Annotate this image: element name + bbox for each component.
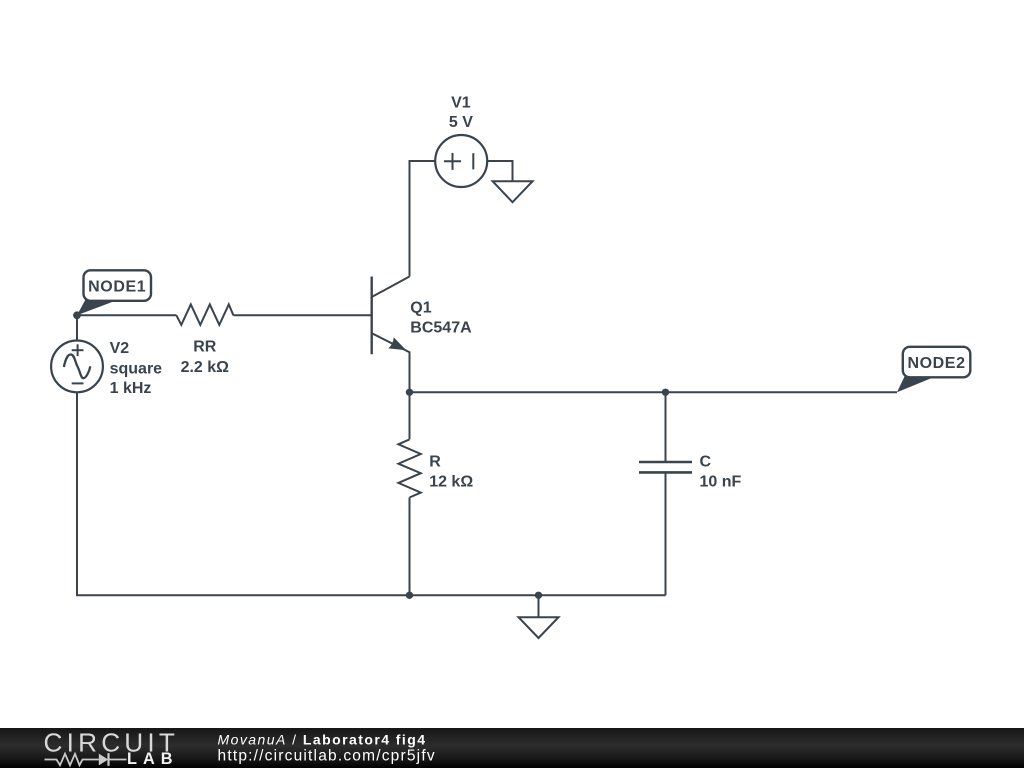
svg-text:NODE2: NODE2 [907,355,965,372]
wire emitter node to NODE2 [410,391,898,393]
junction ground stem [535,592,542,599]
wire capacitor bottom [665,472,667,595]
wire V1 right to ground [487,161,512,181]
label C 10 nF [700,453,742,490]
wire RR to Q1 base [233,314,371,316]
wire V1 left to Q1 collector [410,161,436,277]
svg-text:square: square [110,361,163,378]
svg-text:2.2 kΩ: 2.2 kΩ [181,359,230,376]
node flag NODE1 [73,270,151,319]
label RR 2.2 kOhm [181,338,230,376]
transistor Q1 [372,277,410,355]
svg-text:RR: RR [193,338,217,355]
svg-text:Q1: Q1 [410,300,431,317]
wire ground stem [538,595,540,617]
svg-text:12 kΩ: 12 kΩ [429,474,473,491]
svg-text:MovanuA / Laborator4 fig4: MovanuA / Laborator4 fig4 [218,732,427,748]
svg-text:10 nF: 10 nF [700,474,742,491]
svg-text:1 kHz: 1 kHz [110,380,152,397]
svg-text:R: R [429,453,441,470]
CircuitLab logo resistor-diode glyph [45,753,127,766]
svg-text:LAB: LAB [127,750,178,768]
footer url [218,748,436,765]
resistor RR 2.2k [176,304,233,325]
wire NODE1 to resistor RR [77,314,177,316]
svg-text:V1: V1 [451,95,471,112]
junction emitter node [406,389,413,396]
junction at capacitor top [662,389,669,396]
wire node to resistor R [409,392,411,439]
svg-text:C: C [700,453,712,470]
svg-text:NODE1: NODE1 [88,278,146,295]
label Q1 BC547A [410,300,472,337]
svg-text:V2: V2 [110,340,130,357]
wire bottom rail [77,392,666,595]
svg-text:BC547A: BC547A [410,320,472,337]
voltage source V2 [51,315,103,392]
CircuitLab logo LAB [127,750,178,768]
wire R to bottom rail [409,498,411,596]
junction R bottom [406,592,413,599]
label R 12 kOhm [429,453,473,490]
ground (top, at V1) [493,181,533,202]
label V2 square 1 kHz [110,340,163,397]
footer bar [0,728,1024,768]
label V1 5 V [449,95,473,131]
resistor R 12k [398,439,420,497]
ground (bottom) [519,617,559,638]
footer title MovanuA / Laborator4 fig4 [218,732,427,748]
capacitor C [639,462,692,472]
voltage source V1 [435,135,487,187]
wire Q1 emitter down [409,353,411,393]
CircuitLab logo CIRCUIT [44,728,180,758]
wire capacitor top [665,392,667,462]
svg-text:5 V: 5 V [449,114,473,131]
svg-text:http://circuitlab.com/cpr5jfv: http://circuitlab.com/cpr5jfv [218,748,436,765]
node flag NODE2 [897,347,970,393]
